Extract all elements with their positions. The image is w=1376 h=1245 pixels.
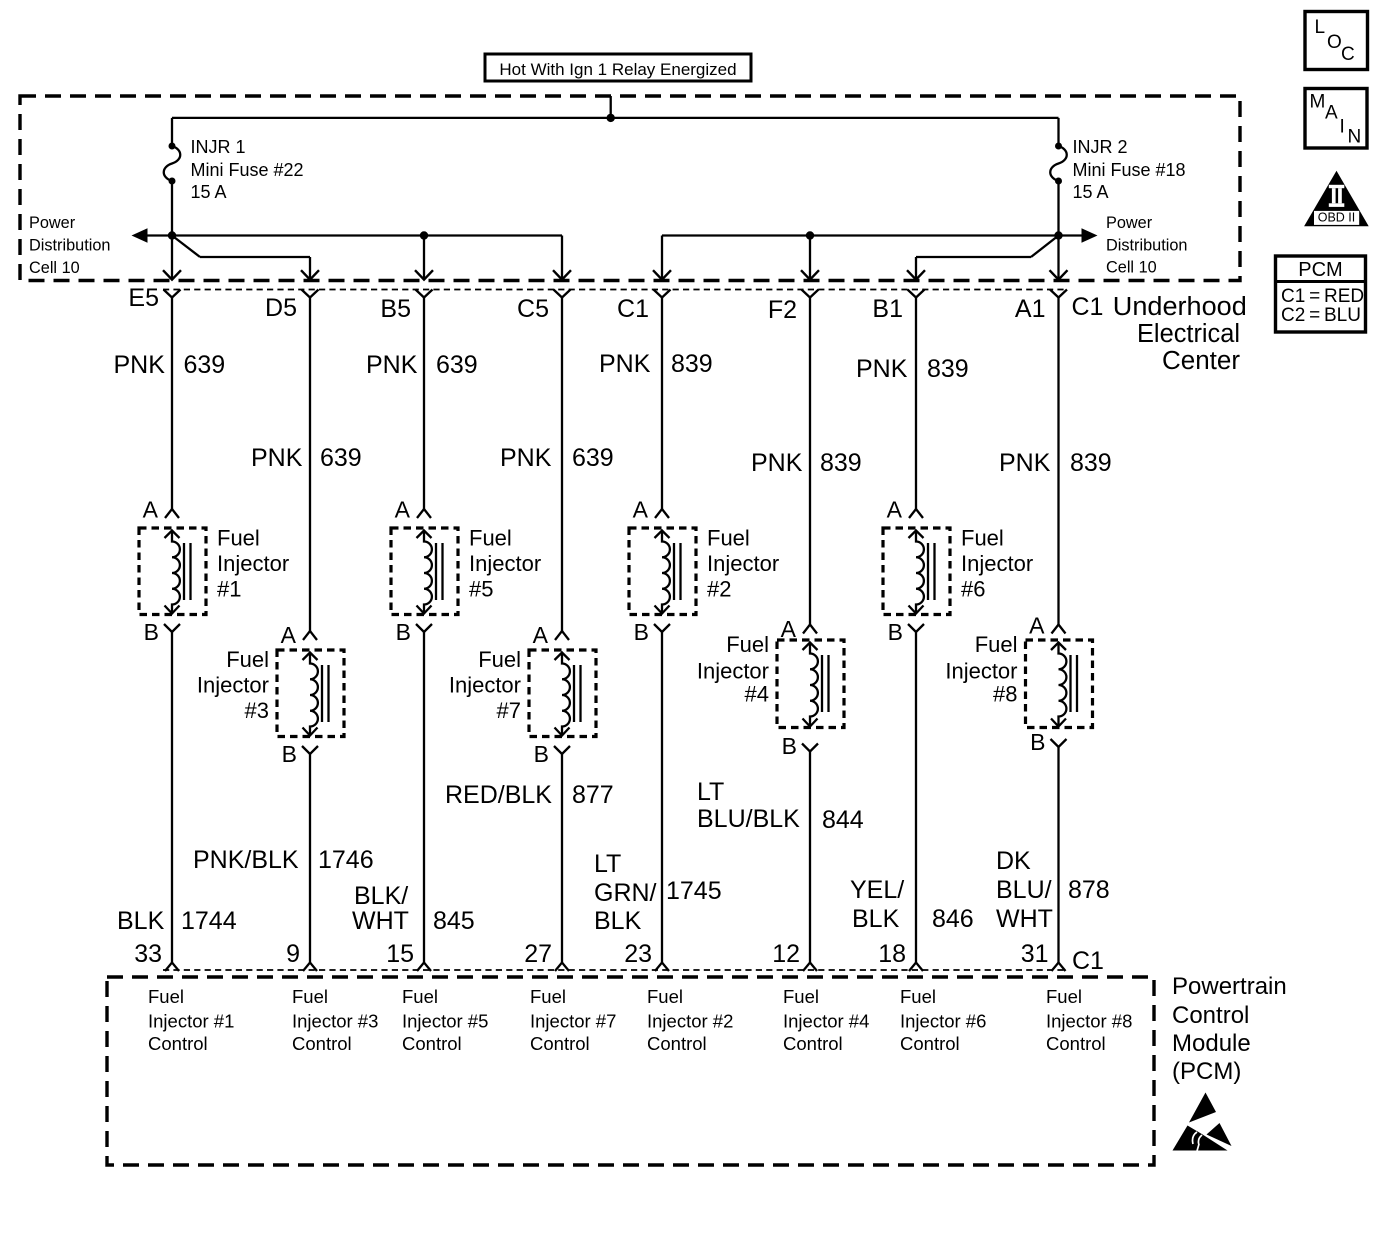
svg-text:B: B bbox=[144, 619, 159, 645]
svg-text:WHT: WHT bbox=[352, 907, 409, 935]
label: pin A bbox=[143, 497, 159, 523]
svg-text:#1: #1 bbox=[217, 577, 241, 602]
svg-text:Injector #4: Injector #4 bbox=[783, 1011, 869, 1032]
label: Fuel Injector #7 Control bbox=[530, 986, 616, 1054]
svg-text:I: I bbox=[1340, 117, 1345, 138]
label: Fuel Injector #8 Control bbox=[1046, 986, 1132, 1054]
label: terminal E5 bbox=[128, 284, 159, 312]
svg-text:Powertrain: Powertrain bbox=[1172, 973, 1287, 1000]
wire: drop to F2 bbox=[809, 236, 811, 280]
wire: right distribution bus bbox=[662, 234, 1083, 236]
svg-text:Fuel: Fuel bbox=[478, 647, 521, 672]
svg-text:A: A bbox=[395, 497, 411, 523]
label: terminal F2 bbox=[768, 296, 797, 324]
label: terminal A1 bbox=[1015, 295, 1046, 323]
wire F2 from connector to Fuel Injector #4 pin A bbox=[809, 298, 811, 625]
label: pin B bbox=[534, 741, 549, 767]
label: control wire color/circuit bbox=[996, 847, 1110, 933]
PCM pin 27 (male) bbox=[555, 963, 569, 972]
svg-text:PNK: PNK bbox=[999, 449, 1051, 477]
label: wire color/circuit for C5 bbox=[500, 444, 614, 472]
svg-text:A: A bbox=[1325, 103, 1338, 124]
svg-text:O: O bbox=[1327, 32, 1342, 53]
junction node at fuse 2 output bbox=[1054, 231, 1062, 239]
svg-text:1745: 1745 bbox=[666, 877, 722, 905]
svg-text:Control: Control bbox=[148, 1033, 208, 1054]
wire B5 from connector to Fuel Injector #5 pin A bbox=[423, 298, 425, 510]
fuel injector #6 (dashed box with solenoid coil) bbox=[883, 528, 950, 615]
svg-text:Fuel: Fuel bbox=[961, 526, 1004, 551]
pin B of injector #4 bbox=[802, 744, 818, 752]
fuel injector #7 (dashed box with solenoid coil) bbox=[529, 650, 596, 737]
label: wire color/circuit for C1 bbox=[599, 350, 713, 378]
svg-text:Cell 10: Cell 10 bbox=[1106, 259, 1157, 277]
svg-text:Fuel: Fuel bbox=[469, 526, 512, 551]
arrow to Power Distribution Cell 10 (left) bbox=[132, 228, 148, 243]
label: Fuel Injector #5 bbox=[469, 526, 541, 602]
svg-text:Injector: Injector bbox=[449, 673, 521, 698]
svg-text:Control: Control bbox=[402, 1033, 462, 1054]
svg-text:#3: #3 bbox=[245, 698, 269, 723]
PCM pin 33 (male) bbox=[165, 963, 179, 972]
label: PCM terminal 18 bbox=[878, 940, 906, 968]
label: Fuel Injector #8 bbox=[945, 632, 1017, 707]
arrowhead into connector C1 bbox=[653, 270, 671, 279]
svg-text:27: 27 bbox=[524, 940, 552, 968]
arrowhead into connector C5 bbox=[553, 270, 571, 279]
svg-text:Mini Fuse #22: Mini Fuse #22 bbox=[191, 160, 304, 180]
pin B of injector #8 bbox=[1051, 739, 1067, 747]
svg-text:L: L bbox=[1315, 17, 1326, 38]
svg-text:Injector: Injector bbox=[697, 659, 769, 684]
wire C5 from connector to Fuel Injector #7 pin A bbox=[561, 298, 563, 632]
wire: drop to C5 bbox=[561, 236, 563, 280]
svg-text:C1: C1 bbox=[1072, 293, 1104, 321]
svg-text:639: 639 bbox=[184, 351, 226, 379]
label: wire color/circuit for B5 bbox=[366, 351, 478, 379]
svg-text:839: 839 bbox=[1070, 449, 1112, 477]
svg-text:Injector #3: Injector #3 bbox=[292, 1011, 378, 1032]
svg-text:Distribution: Distribution bbox=[29, 237, 110, 255]
svg-text:Fuel: Fuel bbox=[148, 986, 184, 1007]
svg-text:Fuel: Fuel bbox=[217, 526, 260, 551]
svg-text:Injector #7: Injector #7 bbox=[530, 1011, 616, 1032]
svg-text:D5: D5 bbox=[265, 294, 297, 322]
svg-text:Underhood: Underhood bbox=[1113, 293, 1247, 321]
label: Fuel Injector #7 bbox=[449, 647, 521, 723]
svg-text:A: A bbox=[633, 497, 649, 523]
svg-text:Electrical: Electrical bbox=[1137, 320, 1240, 348]
svg-text:#8: #8 bbox=[993, 682, 1017, 707]
fuel injector #4 (dashed box with solenoid coil) bbox=[777, 640, 844, 728]
svg-text:(PCM): (PCM) bbox=[1172, 1058, 1241, 1085]
pin A of injector #3 bbox=[303, 631, 317, 640]
svg-text:844: 844 bbox=[822, 806, 864, 834]
fuse INJR 1 (Mini Fuse #22 15 A) bbox=[164, 118, 181, 236]
svg-text:C: C bbox=[1341, 44, 1355, 65]
svg-text:9: 9 bbox=[286, 940, 300, 968]
svg-text:F2: F2 bbox=[768, 296, 797, 324]
pin B of injector #1 bbox=[164, 624, 180, 632]
connector pin C5 (female) bbox=[554, 290, 571, 298]
svg-text:PNK: PNK bbox=[751, 449, 803, 477]
svg-text:Mini Fuse #18: Mini Fuse #18 bbox=[1073, 160, 1186, 180]
svg-text:Hot With Ign 1 Relay Energized: Hot With Ign 1 Relay Energized bbox=[499, 60, 736, 79]
wire from header box into Underhood Electrical Center bbox=[610, 96, 612, 118]
label: terminal C1 bbox=[617, 295, 649, 323]
label: PCM terminal 31 bbox=[1021, 940, 1049, 968]
label: pin A bbox=[781, 616, 797, 642]
wire: drop to B5 bbox=[423, 236, 425, 280]
svg-text:B5: B5 bbox=[380, 295, 411, 323]
svg-text:Cell 10: Cell 10 bbox=[29, 259, 80, 277]
svg-text:Injector: Injector bbox=[469, 551, 541, 576]
header box: Hot With Ign 1 Relay Energized bbox=[485, 54, 751, 81]
svg-text:C2 = BLU: C2 = BLU bbox=[1281, 305, 1361, 326]
label: INJR 1 / Mini Fuse #22 / 15 A bbox=[191, 137, 304, 202]
svg-text:877: 877 bbox=[572, 781, 614, 809]
svg-text:YEL/: YEL/ bbox=[850, 876, 904, 904]
label: connector C1 (PCM, bottom right) bbox=[1072, 947, 1104, 975]
svg-text:BLK: BLK bbox=[117, 907, 165, 935]
pin B of injector #3 bbox=[302, 746, 318, 754]
arrowhead into connector B1 bbox=[907, 270, 925, 279]
svg-text:Fuel: Fuel bbox=[726, 632, 769, 657]
svg-text:31: 31 bbox=[1021, 940, 1049, 968]
wire A1 from connector to Fuel Injector #8 pin A bbox=[1057, 298, 1059, 625]
svg-text:Control: Control bbox=[1046, 1033, 1106, 1054]
svg-text:PNK: PNK bbox=[856, 355, 908, 383]
label: terminal C5 bbox=[517, 295, 549, 323]
arrowhead into connector B5 bbox=[415, 270, 433, 279]
OBD II symbol bbox=[1304, 171, 1369, 227]
arrowhead into connector A1 bbox=[1050, 270, 1068, 279]
svg-text:Control: Control bbox=[900, 1033, 960, 1054]
label: terminal B5 bbox=[380, 295, 411, 323]
svg-text:Fuel: Fuel bbox=[226, 647, 269, 672]
svg-text:A: A bbox=[281, 622, 297, 648]
svg-text:Control: Control bbox=[530, 1033, 590, 1054]
svg-text:C1: C1 bbox=[617, 295, 649, 323]
junction node at fuse 1 output bbox=[168, 231, 176, 239]
pin A of injector #7 bbox=[555, 631, 569, 640]
svg-text:DK: DK bbox=[996, 847, 1031, 875]
svg-text:PNK: PNK bbox=[500, 444, 552, 472]
svg-text:Injector #8: Injector #8 bbox=[1046, 1011, 1132, 1032]
label: control wire color/circuit bbox=[117, 907, 237, 935]
wire E5 from injector #1 pin B to PCM pin 33 bbox=[171, 632, 173, 963]
pin A of injector #5 bbox=[417, 509, 431, 518]
svg-text:B1: B1 bbox=[872, 295, 903, 323]
label: pin A bbox=[1029, 613, 1045, 639]
svg-text:RED/BLK: RED/BLK bbox=[445, 781, 552, 809]
wire A1 from injector #8 pin B to PCM pin 31 bbox=[1057, 747, 1059, 963]
svg-text:Fuel: Fuel bbox=[783, 986, 819, 1007]
wire B1 from connector to Fuel Injector #6 pin A bbox=[915, 298, 917, 510]
wire: diagonal branch to D5 bbox=[172, 236, 310, 280]
svg-text:BLK: BLK bbox=[594, 907, 642, 935]
label: wire color/circuit for E5 bbox=[114, 351, 226, 379]
label: Fuel Injector #5 Control bbox=[402, 986, 488, 1054]
svg-text:Fuel: Fuel bbox=[292, 986, 328, 1007]
label: connector C1 (top right) bbox=[1072, 293, 1104, 321]
label: Fuel Injector #4 Control bbox=[783, 986, 869, 1054]
arrow to Power Distribution Cell 10 (right) bbox=[1082, 228, 1098, 243]
label: pin B bbox=[888, 619, 903, 645]
label: wire color/circuit for A1 bbox=[999, 449, 1112, 477]
svg-text:Injector #1: Injector #1 bbox=[148, 1011, 234, 1032]
Underhood Electrical Center dashed box bbox=[20, 96, 1240, 281]
svg-text:B: B bbox=[888, 619, 903, 645]
svg-text:A: A bbox=[887, 497, 903, 523]
svg-text:C1 = RED: C1 = RED bbox=[1281, 286, 1364, 307]
label: terminal B1 bbox=[872, 295, 903, 323]
label: pin A bbox=[887, 497, 903, 523]
svg-text:A: A bbox=[1029, 613, 1045, 639]
label: pin A bbox=[533, 622, 549, 648]
label: control wire color/circuit bbox=[445, 781, 614, 809]
svg-text:Injector: Injector bbox=[197, 673, 269, 698]
connector pin B5 (female) bbox=[416, 290, 433, 298]
svg-text:B: B bbox=[282, 741, 297, 767]
svg-text:839: 839 bbox=[927, 355, 969, 383]
svg-text:BLU/BLK: BLU/BLK bbox=[697, 805, 800, 833]
svg-text:839: 839 bbox=[820, 449, 862, 477]
wire C5 from injector #7 pin B to PCM pin 27 bbox=[561, 754, 563, 963]
label: pin A bbox=[633, 497, 649, 523]
label: PCM terminal 9 bbox=[286, 940, 300, 968]
svg-text:PNK: PNK bbox=[599, 350, 651, 378]
label: control wire color/circuit bbox=[193, 846, 374, 874]
connector pin D5 (female) bbox=[302, 290, 319, 298]
Powertrain Control Module dashed box bbox=[107, 977, 1154, 1165]
arrowhead into connector D5 bbox=[301, 270, 319, 279]
svg-text:Fuel: Fuel bbox=[647, 986, 683, 1007]
svg-text:Fuel: Fuel bbox=[530, 986, 566, 1007]
fuel injector #5 (dashed box with solenoid coil) bbox=[391, 528, 458, 615]
svg-text:A: A bbox=[781, 616, 797, 642]
MAIN reference box bbox=[1305, 89, 1367, 149]
label: pin B bbox=[1030, 729, 1045, 755]
svg-text:GRN/: GRN/ bbox=[594, 879, 657, 907]
svg-text:B: B bbox=[782, 733, 797, 759]
svg-text:Injector #6: Injector #6 bbox=[900, 1011, 986, 1032]
label: PCM terminal 33 bbox=[134, 940, 162, 968]
wire D5 from injector #3 pin B to PCM pin 9 bbox=[309, 754, 311, 963]
fuel injector #1 (dashed box with solenoid coil) bbox=[139, 528, 206, 615]
wire B1 from injector #6 pin B to PCM pin 18 bbox=[915, 632, 917, 963]
svg-text:B: B bbox=[396, 619, 411, 645]
label: pin B bbox=[782, 733, 797, 759]
svg-text:Fuel: Fuel bbox=[707, 526, 750, 551]
fuel injector #2 (dashed box with solenoid coil) bbox=[629, 528, 696, 615]
svg-text:C1: C1 bbox=[1072, 947, 1104, 975]
PCM pin 12 (male) bbox=[803, 963, 817, 972]
label: Fuel Injector #2 bbox=[707, 526, 779, 602]
svg-text:Center: Center bbox=[1162, 347, 1241, 375]
label: Fuel Injector #6 Control bbox=[900, 986, 986, 1054]
svg-text:Fuel: Fuel bbox=[402, 986, 438, 1007]
wire: top feed bus bbox=[172, 117, 1059, 119]
svg-text:Injector: Injector bbox=[945, 659, 1017, 684]
svg-text:PNK: PNK bbox=[251, 444, 303, 472]
wire E5 from connector to Fuel Injector #1 pin A bbox=[171, 298, 173, 510]
svg-text:B: B bbox=[634, 619, 649, 645]
label: Fuel Injector #2 Control bbox=[647, 986, 733, 1054]
svg-text:Power: Power bbox=[29, 214, 76, 232]
label: Powertrain Control Module (PCM) bbox=[1172, 973, 1287, 1085]
svg-text:846: 846 bbox=[932, 905, 974, 933]
svg-text:WHT: WHT bbox=[996, 905, 1053, 933]
svg-text:Control: Control bbox=[292, 1033, 352, 1054]
junction node at B5 drop bbox=[420, 231, 428, 239]
svg-text:639: 639 bbox=[572, 444, 614, 472]
svg-text:INJR 1: INJR 1 bbox=[191, 137, 246, 157]
svg-text:18: 18 bbox=[878, 940, 906, 968]
wire: drop to A1 bbox=[1057, 236, 1059, 280]
wire C1 from injector #2 pin B to PCM pin 23 bbox=[661, 632, 663, 963]
PCM pin 23 (male) bbox=[655, 963, 669, 972]
connector pin B1 (female) bbox=[908, 290, 925, 298]
PCM pin 9 (male) bbox=[303, 963, 317, 972]
label: wire color/circuit for F2 bbox=[751, 449, 862, 477]
svg-text:#6: #6 bbox=[961, 577, 985, 602]
label: Power Distribution Cell 10 (left) bbox=[29, 214, 110, 277]
svg-text:878: 878 bbox=[1068, 876, 1110, 904]
label: pin A bbox=[395, 497, 411, 523]
wire: drop to E5 bbox=[171, 236, 173, 280]
svg-text:23: 23 bbox=[624, 940, 652, 968]
svg-text:LT: LT bbox=[594, 850, 621, 878]
connector line (Underhood C1/C2 row, fine dashed) bbox=[163, 289, 1067, 291]
wire C1 from connector to Fuel Injector #2 pin A bbox=[661, 298, 663, 510]
svg-text:845: 845 bbox=[433, 907, 475, 935]
label: terminal D5 bbox=[265, 294, 297, 322]
wire: diagonal branch to B1 bbox=[916, 236, 1059, 280]
label: PCM terminal 23 bbox=[624, 940, 652, 968]
svg-text:Control: Control bbox=[647, 1033, 707, 1054]
svg-text:A: A bbox=[143, 497, 159, 523]
svg-text:Fuel: Fuel bbox=[975, 632, 1018, 657]
svg-text:C5: C5 bbox=[517, 295, 549, 323]
svg-text:#4: #4 bbox=[745, 682, 769, 707]
label: control wire color/circuit bbox=[352, 882, 475, 935]
pin B of injector #6 bbox=[908, 624, 924, 632]
label: pin B bbox=[396, 619, 411, 645]
connector pin C1 (female) bbox=[654, 290, 671, 298]
ESD sensitive device symbol bbox=[1173, 1093, 1232, 1152]
label: pin B bbox=[634, 619, 649, 645]
label: Underhood Electrical Center bbox=[1113, 293, 1247, 375]
label: Fuel Injector #6 bbox=[961, 526, 1033, 602]
svg-text:#7: #7 bbox=[497, 698, 521, 723]
label: PCM terminal 15 bbox=[386, 940, 414, 968]
wire B5 from injector #5 pin B to PCM pin 15 bbox=[423, 632, 425, 963]
svg-text:PNK: PNK bbox=[366, 351, 418, 379]
svg-text:B: B bbox=[534, 741, 549, 767]
label: Fuel Injector #3 bbox=[197, 647, 269, 723]
svg-text:Fuel: Fuel bbox=[900, 986, 936, 1007]
pin A of injector #6 bbox=[909, 509, 923, 518]
junction node at F2 drop bbox=[806, 231, 814, 239]
arrowhead into connector E5 bbox=[163, 270, 181, 279]
connector pin F2 (female) bbox=[802, 290, 819, 298]
svg-text:Injector: Injector bbox=[217, 551, 289, 576]
svg-text:Injector #2: Injector #2 bbox=[647, 1011, 733, 1032]
svg-text:E5: E5 bbox=[128, 284, 159, 312]
fuse INJR 2 (Mini Fuse #18 15 A) bbox=[1050, 118, 1067, 236]
wire: left distribution bus bbox=[146, 234, 562, 236]
svg-text:Control: Control bbox=[783, 1033, 843, 1054]
svg-text:1744: 1744 bbox=[181, 907, 237, 935]
PCM pin 18 (male) bbox=[909, 963, 923, 972]
PCM connector line (fine dashed) bbox=[163, 969, 1066, 971]
pin A of injector #4 bbox=[803, 625, 817, 634]
connector pin A1 (female) bbox=[1050, 290, 1067, 298]
svg-text:N: N bbox=[1348, 127, 1362, 148]
label: pin B bbox=[282, 741, 297, 767]
svg-text:PCM: PCM bbox=[1298, 259, 1342, 281]
pin B of injector #5 bbox=[416, 624, 432, 632]
svg-text:M: M bbox=[1310, 92, 1326, 113]
svg-text:#5: #5 bbox=[469, 577, 493, 602]
svg-text:639: 639 bbox=[320, 444, 362, 472]
pin B of injector #7 bbox=[554, 746, 570, 754]
wire: drop to C1 bbox=[661, 236, 663, 280]
svg-text:BLK/: BLK/ bbox=[354, 882, 408, 910]
svg-text:PNK/BLK: PNK/BLK bbox=[193, 846, 299, 874]
PCM pin 31 (male) bbox=[1052, 963, 1066, 972]
svg-text:12: 12 bbox=[772, 940, 800, 968]
svg-text:839: 839 bbox=[671, 350, 713, 378]
svg-text:OBD II: OBD II bbox=[1318, 211, 1356, 225]
svg-text:15 A: 15 A bbox=[191, 182, 227, 202]
fuel injector #3 (dashed box with solenoid coil) bbox=[277, 650, 344, 737]
label: control wire color/circuit bbox=[697, 778, 864, 834]
label: wire color/circuit for B1 bbox=[856, 355, 969, 383]
label: control wire color/circuit bbox=[594, 850, 722, 935]
svg-text:Fuel: Fuel bbox=[1046, 986, 1082, 1007]
svg-text:Injector: Injector bbox=[961, 551, 1033, 576]
label: Power Distribution Cell 10 (right) bbox=[1106, 214, 1187, 277]
svg-text:Module: Module bbox=[1172, 1030, 1251, 1057]
label: pin A bbox=[281, 622, 297, 648]
connector pin E5 (female) bbox=[164, 290, 181, 298]
svg-text:A: A bbox=[533, 622, 549, 648]
wire F2 from injector #4 pin B to PCM pin 12 bbox=[809, 752, 811, 963]
wire D5 from connector to Fuel Injector #3 pin A bbox=[309, 298, 311, 632]
svg-text:Power: Power bbox=[1106, 214, 1153, 232]
svg-text:15 A: 15 A bbox=[1073, 182, 1109, 202]
svg-text:Injector #5: Injector #5 bbox=[402, 1011, 488, 1032]
svg-text:BLK: BLK bbox=[852, 905, 900, 933]
fuel injector #8 (dashed box with solenoid coil) bbox=[1026, 640, 1093, 728]
svg-text:639: 639 bbox=[436, 351, 478, 379]
svg-text:Distribution: Distribution bbox=[1106, 237, 1187, 255]
label: pin B bbox=[144, 619, 159, 645]
svg-text:A1: A1 bbox=[1015, 295, 1046, 323]
pin B of injector #2 bbox=[654, 624, 670, 632]
pin A of injector #8 bbox=[1052, 625, 1066, 634]
label: Fuel Injector #1 Control bbox=[148, 986, 234, 1054]
svg-text:1746: 1746 bbox=[318, 846, 374, 874]
svg-text:PNK: PNK bbox=[114, 351, 166, 379]
label: PCM terminal 27 bbox=[524, 940, 552, 968]
svg-text:15: 15 bbox=[386, 940, 414, 968]
pin A of injector #2 bbox=[655, 509, 669, 518]
label: Fuel Injector #4 bbox=[697, 632, 769, 707]
svg-text:Control: Control bbox=[1172, 1002, 1249, 1029]
